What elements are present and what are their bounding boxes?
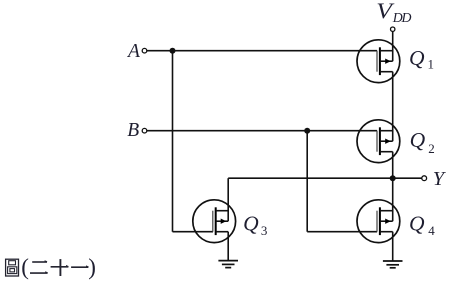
wire B to Q2 gate	[147, 130, 377, 132]
wire B branch vertical	[306, 131, 308, 232]
power terminal VDD	[391, 27, 395, 31]
wire Q1 source to Q2 drain	[392, 72, 394, 142]
svg-text:Q: Q	[409, 46, 425, 70]
svg-text:V: V	[376, 0, 394, 24]
svg-text:DD: DD	[392, 10, 412, 25]
wire Q2 source to Q4 drain	[392, 152, 394, 222]
junction Y node	[390, 175, 396, 181]
input terminal B	[142, 128, 147, 133]
svg-text:(: (	[21, 255, 29, 280]
output terminal Y	[422, 176, 427, 181]
input terminal A	[142, 48, 147, 53]
VDD label	[376, 0, 394, 24]
svg-text:3: 3	[261, 223, 268, 238]
ground under Q4	[383, 261, 403, 268]
wire B branch to Q4 gate	[307, 231, 377, 233]
wire A branch vertical	[172, 51, 174, 232]
ground under Q3	[218, 261, 238, 268]
caption figure number	[6, 259, 19, 276]
svg-text:A: A	[126, 41, 140, 62]
transistor Q4	[357, 200, 400, 243]
svg-text:4: 4	[428, 223, 435, 238]
caption character two	[30, 260, 48, 273]
transistor Q3	[193, 200, 236, 243]
wire Q4 source to ground	[392, 232, 394, 261]
svg-text:2: 2	[428, 141, 435, 156]
svg-text:Q: Q	[243, 211, 259, 235]
caption character one	[71, 265, 89, 267]
svg-text:Y: Y	[433, 168, 447, 190]
junction A branch	[170, 48, 176, 54]
transistor Q1	[357, 40, 400, 83]
svg-text:): )	[88, 255, 96, 280]
junction B branch	[304, 128, 310, 134]
caption character ten	[51, 259, 69, 276]
wire Q3 drain vertical	[227, 178, 229, 221]
svg-text:B: B	[127, 120, 139, 141]
wire Q3 source to ground	[227, 232, 229, 261]
transistor Q2	[357, 120, 400, 163]
svg-text:Q: Q	[410, 128, 426, 152]
wire A branch to Q3 gate	[173, 231, 214, 233]
wire A to Q1 gate	[147, 50, 377, 52]
wire VDD to Q1 drain	[392, 31, 394, 61]
svg-text:1: 1	[428, 56, 435, 71]
svg-text:Q: Q	[409, 211, 425, 235]
wire Y horizontal	[228, 177, 422, 179]
